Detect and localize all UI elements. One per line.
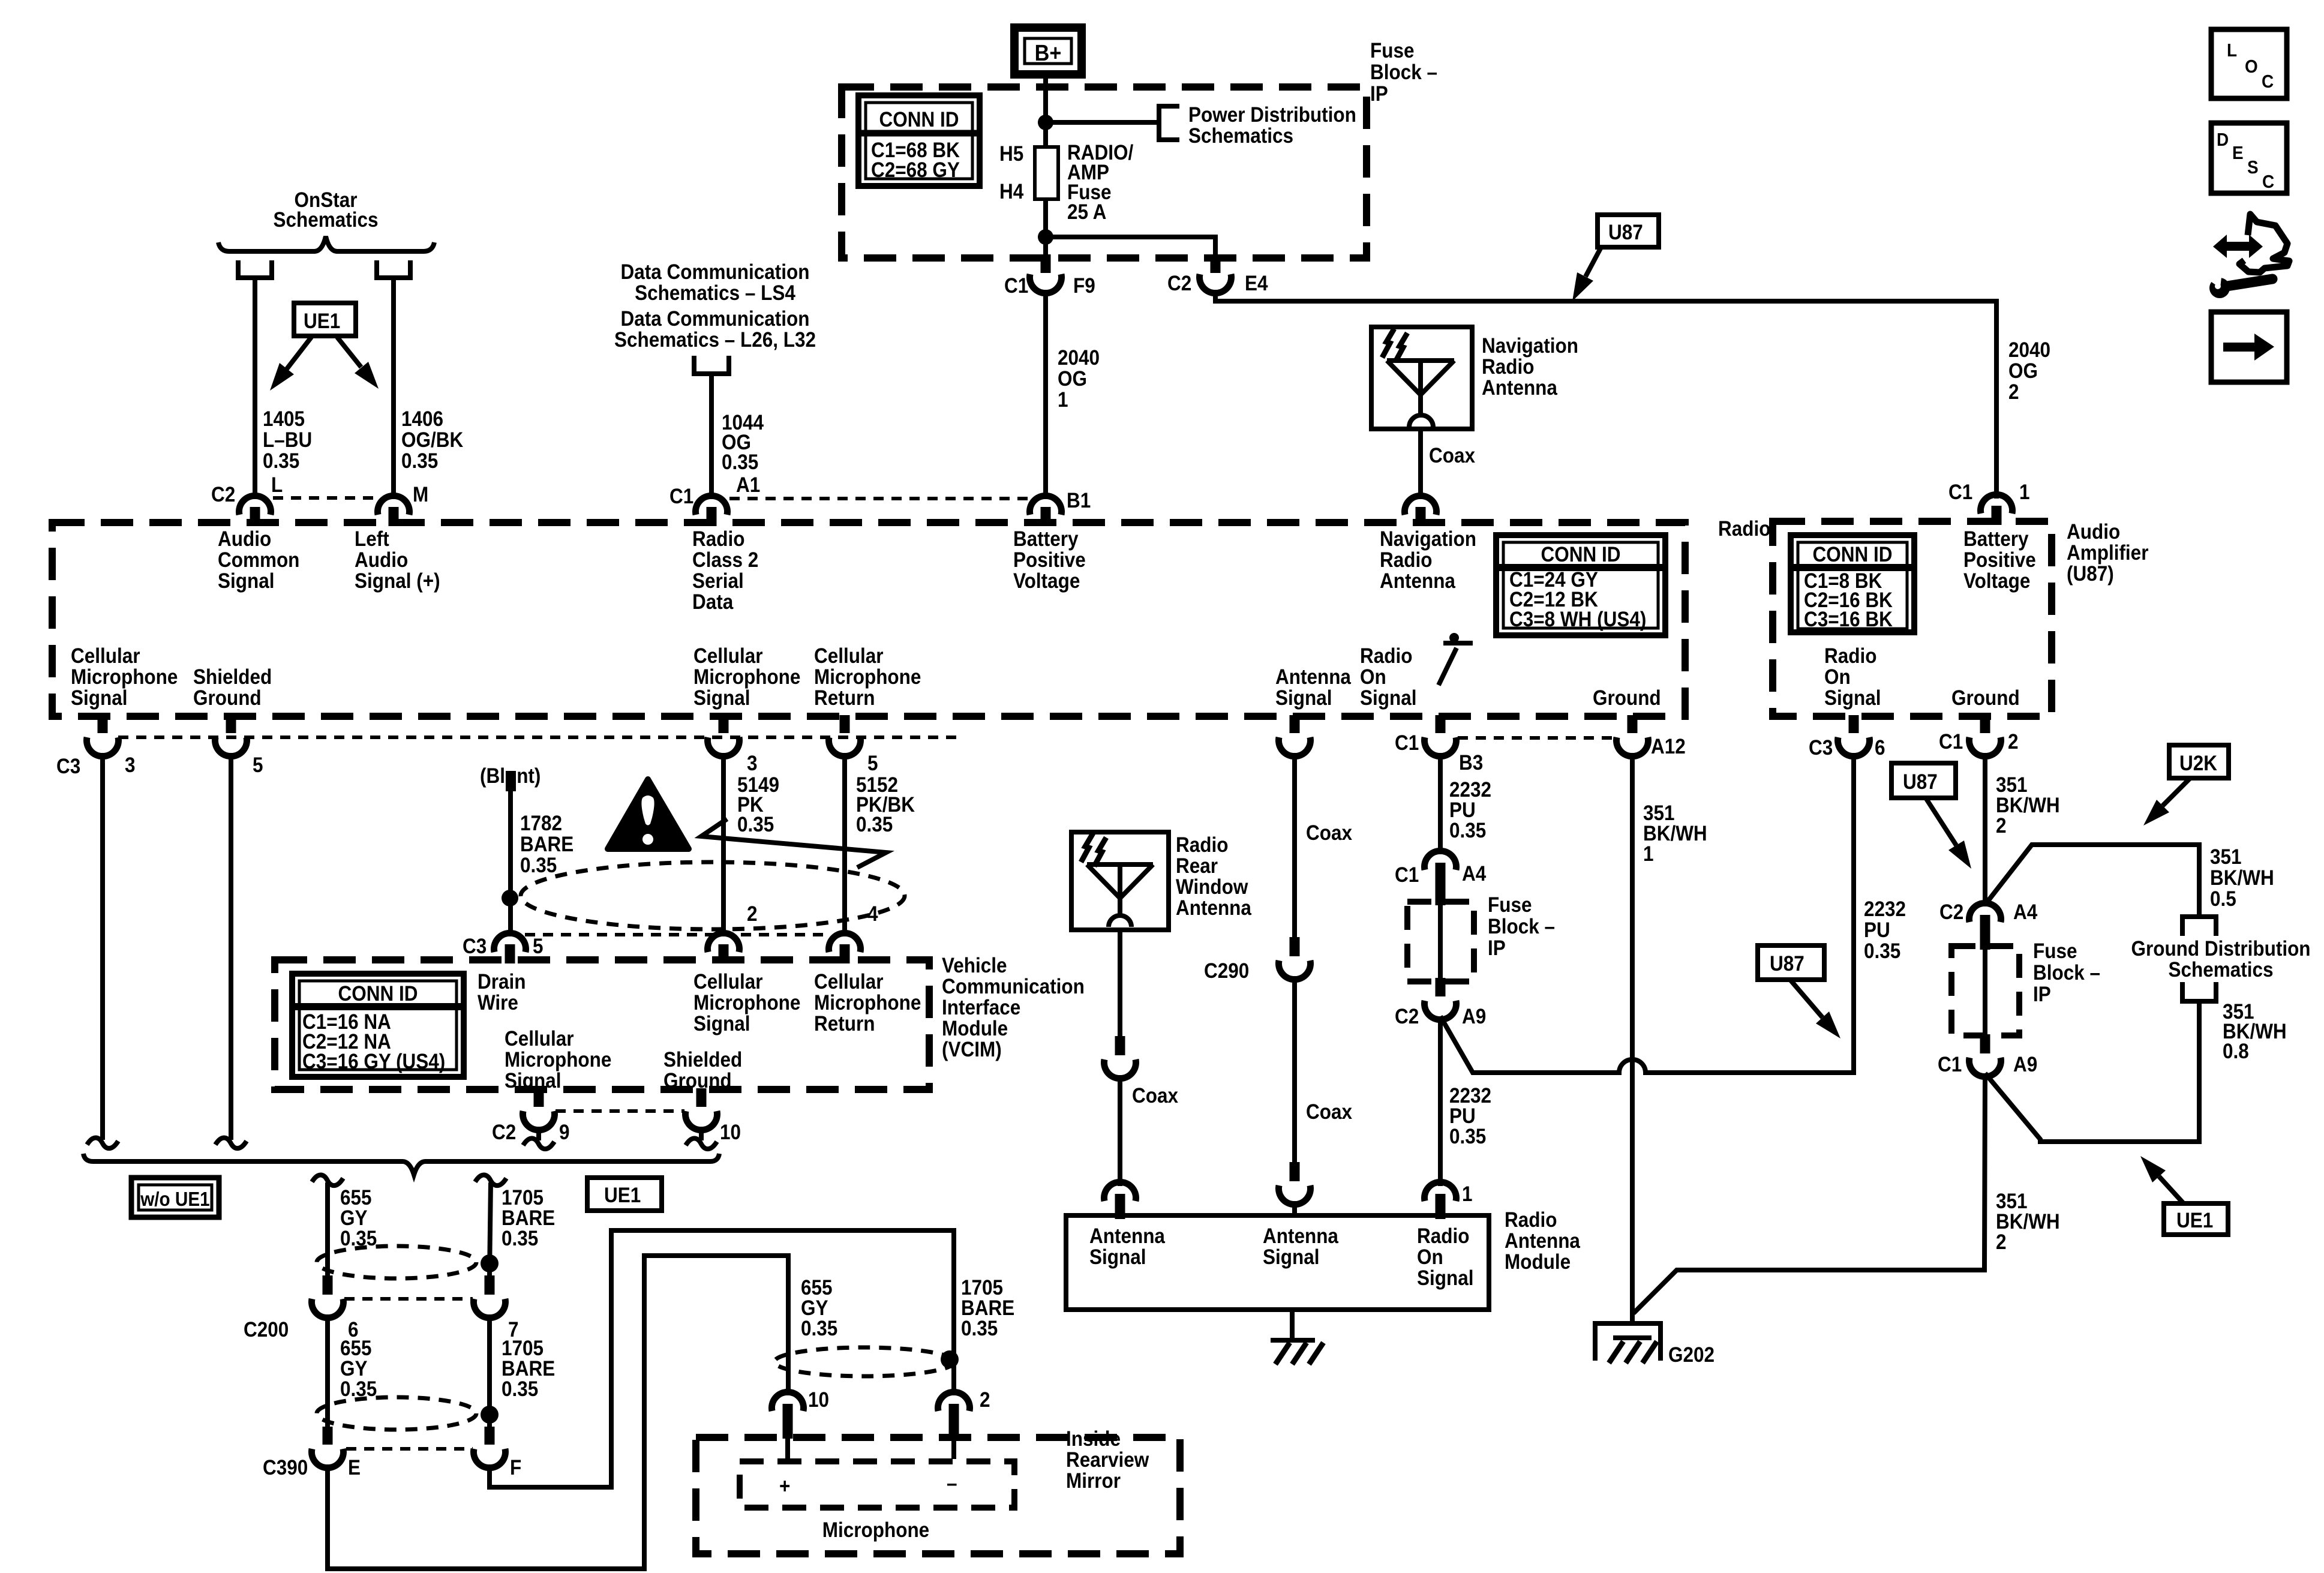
option label U87 arrow middle: [1891, 763, 1956, 798]
wire fuse to E4: [1046, 237, 1215, 257]
wire 5152 PK/BK: [842, 753, 847, 936]
antenna symbol rear window: [1087, 864, 1153, 917]
svg-text:O: O: [2245, 56, 2258, 77]
twisted pair dashed ellipse C200: [317, 1246, 476, 1278]
svg-text:0.35: 0.35: [520, 854, 557, 878]
svg-text:10: 10: [808, 1389, 829, 1412]
svg-text:Antenna: Antenna: [1089, 1225, 1165, 1248]
wire 1705 BARE upper: [475, 1175, 506, 1186]
svg-text:Voltage: Voltage: [1963, 570, 2030, 593]
svg-text:UE1: UE1: [2176, 1209, 2213, 1233]
connector face dashed line VCIM top: [525, 933, 831, 936]
connector C1 pin B3: [1436, 715, 1446, 733]
svg-text:Block –: Block –: [1488, 915, 1555, 939]
warning triangle: [608, 779, 689, 849]
svg-text:1: 1: [1643, 843, 1654, 866]
svg-text:Coax: Coax: [1306, 1101, 1352, 1124]
option label UE1 with arrows: [294, 303, 356, 336]
connector C1 pin 2 amplifier: [1980, 715, 1990, 733]
svg-text:C1: C1: [1939, 731, 1963, 754]
svg-text:Power Distribution: Power Distribution: [1188, 104, 1356, 127]
wire 1044 OG: [709, 374, 714, 499]
wire 351 BK/WH 0.5 to ground distribution: [1985, 845, 2199, 914]
fuse block IP dashed box: [842, 87, 1367, 258]
svg-text:Coax: Coax: [1306, 822, 1352, 845]
svg-text:Block –: Block –: [2033, 962, 2100, 985]
svg-text:Radio: Radio: [1505, 1209, 1557, 1232]
svg-text:C3=8 WH (US4): C3=8 WH (US4): [1509, 608, 1646, 632]
svg-text:M: M: [413, 484, 428, 507]
svg-text:0.35: 0.35: [1449, 819, 1486, 843]
svg-text:Radio: Radio: [1824, 645, 1876, 668]
svg-text:Module: Module: [942, 1017, 1008, 1041]
off-page bracket data communication: [692, 371, 731, 376]
svg-text:25 A: 25 A: [1067, 201, 1106, 224]
CONN ID table fuse block: [858, 95, 980, 186]
svg-text:OG: OG: [2008, 360, 2038, 383]
svg-text:3: 3: [125, 754, 136, 778]
connector C1 pin A9 amplifier fuse block: [1980, 1034, 1990, 1053]
connector face dashed line C390: [346, 1447, 473, 1451]
microphone dashed box: [740, 1461, 1014, 1508]
svg-text:Cellular: Cellular: [693, 971, 763, 994]
svg-text:Fuse: Fuse: [2033, 940, 2077, 963]
svg-text:6: 6: [1875, 737, 1885, 760]
svg-text:L: L: [271, 474, 283, 497]
navigation radio antenna box: [1371, 327, 1472, 429]
svg-text:–: –: [947, 1472, 957, 1496]
wire through fuse block: [1438, 905, 1443, 978]
svg-text:Radio: Radio: [1482, 356, 1534, 379]
svg-text:U87: U87: [1770, 953, 1804, 976]
svg-text:5: 5: [253, 754, 263, 778]
svg-text:3: 3: [747, 752, 758, 776]
connector pin 2 VCIM signal: [708, 933, 740, 952]
connector face dashed line A1 to B1: [729, 497, 1028, 500]
svg-text:Radio: Radio: [692, 528, 744, 551]
svg-text:Signal: Signal: [1824, 687, 1881, 710]
svg-text:2: 2: [747, 903, 758, 926]
svg-text:IP: IP: [1488, 937, 1506, 960]
splice junction mirror: [941, 1350, 959, 1368]
svg-text:Ground: Ground: [1951, 687, 2020, 710]
svg-text:Cellular: Cellular: [814, 971, 884, 994]
svg-text:0.35: 0.35: [502, 1378, 538, 1401]
svg-text:H5: H5: [999, 143, 1023, 166]
off-page bracket ground distribution bottom: [2180, 999, 2218, 1004]
connector C3 pin 6 amplifier: [1849, 715, 1859, 733]
svg-text:Radio: Radio: [1718, 518, 1770, 541]
connector face dashed line B3 to A12: [1458, 736, 1616, 740]
wire 2040 OG 1: [1043, 290, 1048, 499]
svg-text:Signal: Signal: [218, 570, 274, 593]
connector C2 pin A4 amplifier fuse block: [1969, 903, 2001, 922]
svg-text:C2: C2: [1395, 1005, 1419, 1029]
wire coax rear window: [1118, 930, 1122, 1036]
svg-text:BARE: BARE: [520, 833, 574, 857]
svg-text:C290: C290: [1204, 960, 1249, 983]
svg-text:Signal: Signal: [693, 1013, 750, 1036]
audio amplifier dashed box: [1773, 521, 2052, 716]
wire 1705 BARE lower: [487, 1314, 492, 1427]
svg-text:Interface: Interface: [942, 996, 1020, 1020]
svg-text:C2: C2: [1939, 901, 1963, 924]
connector C1 pin 1 amplifier: [1992, 506, 2002, 525]
svg-text:Block –: Block –: [1370, 61, 1437, 85]
connector C390 pin E: [323, 1427, 333, 1445]
svg-text:2: 2: [1996, 815, 2007, 838]
wire through right fuse block: [1983, 950, 1987, 1034]
svg-text:Signal: Signal: [71, 687, 127, 710]
svg-text:Radio: Radio: [1360, 645, 1412, 668]
svg-text:0.35: 0.35: [401, 450, 438, 473]
svg-text:A9: A9: [2013, 1053, 2037, 1077]
svg-text:Class 2: Class 2: [692, 549, 758, 572]
svg-text:E4: E4: [1245, 272, 1268, 296]
wire 1405 L-BU: [253, 278, 257, 499]
fuse block IP small dashed box: [1407, 902, 1474, 981]
svg-text:C2: C2: [1167, 272, 1191, 296]
CONN ID table radio: [1496, 535, 1665, 635]
svg-text:Microphone: Microphone: [505, 1049, 611, 1072]
svg-text:F9: F9: [1073, 275, 1095, 298]
svg-text:Schematics: Schematics: [273, 209, 378, 232]
connector face dashed line L to M: [273, 496, 377, 500]
svg-text:Drain: Drain: [478, 971, 526, 994]
svg-text:10: 10: [720, 1121, 741, 1145]
connector pin 5 cellular microphone return: [840, 715, 850, 733]
svg-text:5: 5: [533, 935, 544, 959]
svg-text:B1: B1: [1067, 490, 1091, 513]
svg-text:Ground Distribution: Ground Distribution: [2131, 938, 2310, 961]
svg-text:C: C: [2262, 172, 2274, 193]
svg-text:BK/WH: BK/WH: [2210, 867, 2274, 890]
svg-text:B3: B3: [1459, 752, 1483, 775]
svg-text:L: L: [2227, 40, 2237, 61]
svg-text:C2: C2: [211, 484, 235, 507]
svg-text:Fuse: Fuse: [1488, 894, 1532, 917]
svg-text:C1: C1: [1395, 864, 1419, 887]
svg-text:Radio: Radio: [1417, 1225, 1469, 1248]
svg-text:+: +: [779, 1475, 790, 1499]
svg-text:Wire: Wire: [478, 992, 518, 1015]
svg-text:F: F: [510, 1457, 521, 1480]
svg-text:4: 4: [867, 903, 878, 926]
svg-text:PU: PU: [1864, 919, 1890, 942]
connector C1 pin A4 fuse block: [1425, 851, 1457, 870]
ground symbol antenna module: [1271, 1338, 1315, 1343]
option label U2K with arrow: [2169, 745, 2229, 778]
svg-text:2040: 2040: [2008, 339, 2050, 362]
svg-text:U87: U87: [1608, 221, 1643, 245]
connector pin 5 shielded ground: [226, 715, 236, 733]
connector pin 10 mirror: [772, 1392, 804, 1411]
svg-text:0.35: 0.35: [961, 1317, 998, 1341]
svg-text:Mirror: Mirror: [1066, 1470, 1121, 1493]
connector C390 pin F: [485, 1427, 495, 1445]
VCIM dashed box: [275, 960, 929, 1089]
svg-text:C1: C1: [1938, 1053, 1962, 1077]
svg-text:5: 5: [867, 752, 878, 776]
svg-text:CONN ID: CONN ID: [1813, 544, 1893, 567]
svg-text:351: 351: [2210, 846, 2242, 869]
svg-text:IP: IP: [2033, 983, 2051, 1007]
svg-text:Cellular: Cellular: [505, 1028, 574, 1051]
svg-text:Microphone: Microphone: [814, 992, 921, 1015]
connector antenna signal radio: [1290, 715, 1300, 733]
wire to power distribution: [1046, 120, 1158, 125]
off-page bracket ground distribution top: [2180, 914, 2218, 919]
svg-text:A1: A1: [736, 474, 760, 497]
connector nav antenna to radio: [1416, 507, 1426, 526]
svg-text:2: 2: [2008, 381, 2019, 404]
svg-text:On: On: [1417, 1246, 1443, 1269]
svg-text:Antenna: Antenna: [1275, 666, 1351, 689]
svg-text:Antenna: Antenna: [1505, 1230, 1580, 1253]
wire 351 BK/WH 2 amplifier ground: [1983, 753, 1987, 906]
svg-text:1: 1: [1462, 1183, 1473, 1206]
wire cellular microphone signal left: [100, 753, 105, 1140]
svg-text:0.35: 0.35: [856, 813, 893, 837]
svg-text:9: 9: [559, 1121, 570, 1145]
svg-text:1406: 1406: [401, 408, 443, 431]
connector pin 4 VCIM return: [829, 933, 861, 952]
connector B1: [1041, 507, 1051, 526]
splice junction 1705 upper: [481, 1254, 499, 1272]
svg-text:Vehicle: Vehicle: [942, 954, 1007, 978]
icon DESC: [2211, 123, 2287, 193]
svg-text:Data Communication: Data Communication: [621, 261, 810, 284]
svg-text:Signal: Signal: [505, 1070, 561, 1093]
connector C1 pin F9: [1041, 254, 1051, 273]
svg-text:C1: C1: [1948, 481, 1972, 505]
wire coax antenna signal: [1292, 753, 1297, 937]
svg-text:C3: C3: [1809, 737, 1833, 760]
svg-text:IP: IP: [1370, 83, 1388, 106]
radio rear window antenna box: [1071, 832, 1169, 930]
CONN ID table amplifier: [1791, 535, 1914, 632]
connector C2 pin A9 fuse block: [1436, 978, 1446, 996]
svg-text:CONN ID: CONN ID: [879, 109, 959, 132]
option label UE1 harness: [587, 1178, 662, 1211]
svg-text:C3=16 BK: C3=16 BK: [1804, 608, 1893, 632]
svg-text:C3: C3: [463, 935, 487, 959]
svg-text:U87: U87: [1903, 771, 1938, 794]
CONN ID table VCIM: [292, 974, 464, 1077]
option label U87 arrow to radio on wire: [1758, 945, 1824, 980]
svg-text:Fuse: Fuse: [1370, 40, 1414, 63]
svg-text:E: E: [2232, 143, 2244, 164]
svg-text:Microphone: Microphone: [693, 666, 800, 689]
svg-text:Shielded: Shielded: [663, 1049, 742, 1072]
svg-text:0.35: 0.35: [1864, 940, 1900, 963]
svg-text:UE1: UE1: [604, 1184, 641, 1208]
svg-text:Microphone: Microphone: [822, 1519, 929, 1542]
connector pin M: [389, 507, 399, 526]
connector pin A12 ground: [1628, 715, 1638, 733]
svg-text:Navigation: Navigation: [1482, 335, 1578, 358]
svg-text:1: 1: [2019, 481, 2030, 505]
svg-text:C3: C3: [56, 755, 80, 779]
fuse RADIO/AMP 25A: [1035, 147, 1058, 199]
wire coax nav antenna: [1418, 429, 1423, 499]
wire 655 GY upper: [312, 1175, 343, 1186]
svg-text:C1: C1: [1395, 732, 1419, 755]
svg-text:Voltage: Voltage: [1013, 570, 1080, 593]
connector C290: [1290, 937, 1300, 956]
svg-text:Microphone: Microphone: [814, 666, 921, 689]
option label w/o UE1: [131, 1178, 219, 1217]
wire 351 BK/WH 0.8 to ground distribution: [1985, 1001, 2199, 1142]
bracket power distribution schematics: [1159, 106, 1179, 140]
connector pin 1 antenna module: [1425, 1182, 1457, 1201]
svg-text:Serial: Serial: [692, 570, 744, 593]
svg-text:C2: C2: [492, 1121, 516, 1145]
svg-text:Schematics – LS4: Schematics – LS4: [635, 282, 795, 305]
wire 2232 PU drop to module pin 1: [1438, 1016, 1443, 1186]
connector pin 10 VCIM: [696, 1088, 707, 1107]
svg-text:Antenna: Antenna: [1482, 377, 1557, 400]
radio dashed box: [52, 523, 1685, 716]
svg-text:1405: 1405: [263, 408, 305, 431]
radio antenna module box: [1066, 1215, 1489, 1310]
svg-text:On: On: [1360, 666, 1386, 689]
svg-text:C2=68 GY: C2=68 GY: [871, 159, 960, 182]
svg-text:D: D: [2217, 130, 2229, 151]
svg-text:1782: 1782: [520, 812, 562, 836]
svg-text:Radio: Radio: [1176, 834, 1228, 857]
svg-text:Audio: Audio: [355, 549, 408, 572]
svg-text:(VCIM): (VCIM): [942, 1038, 1002, 1062]
inline coax connector rear window: [1115, 1036, 1125, 1055]
ground lead antenna module: [1290, 1310, 1295, 1340]
icon service vehicle wrench: [2239, 214, 2289, 272]
svg-text:U2K: U2K: [2179, 752, 2217, 776]
svg-text:A4: A4: [1462, 863, 1487, 886]
interference marks: [1382, 329, 1394, 358]
svg-text:Cellular: Cellular: [814, 645, 884, 668]
svg-text:Navigation: Navigation: [1380, 528, 1476, 551]
svg-text:Schematics: Schematics: [1188, 125, 1293, 148]
wire shielded ground left: [229, 753, 233, 1140]
svg-text:Inside: Inside: [1066, 1428, 1121, 1451]
connector antenna module left: [1104, 1182, 1136, 1201]
wire 351 BK/WH 2 to G202: [1634, 1073, 1985, 1313]
off-page bracket OnStar right: [374, 275, 413, 280]
svg-text:Left: Left: [355, 528, 389, 551]
twisted pair dashed ellipse C390: [317, 1397, 476, 1430]
off-page bracket OnStar left: [236, 275, 274, 280]
svg-text:Signal: Signal: [1275, 687, 1332, 710]
svg-text:2232: 2232: [1864, 898, 1906, 921]
svg-text:Amplifier: Amplifier: [2067, 542, 2149, 565]
twisted pair dashed ellipse mirror: [774, 1347, 954, 1376]
svg-text:C200: C200: [244, 1319, 289, 1342]
wire coax C290 to module: [1292, 976, 1297, 1164]
svg-text:Signal: Signal: [1360, 687, 1416, 710]
svg-text:Microphone: Microphone: [693, 992, 800, 1015]
svg-text:Antenna: Antenna: [1380, 570, 1455, 593]
svg-text:Positive: Positive: [1963, 549, 2036, 572]
svg-text:H4: H4: [999, 181, 1024, 204]
connector face dashed line C2 9 to 10: [556, 1109, 684, 1113]
svg-text:OG: OG: [1058, 368, 1087, 391]
svg-text:0.5: 0.5: [2210, 888, 2236, 911]
option label UE1 with arrow bottom right: [2164, 1203, 2228, 1235]
svg-text:C: C: [2262, 71, 2274, 92]
svg-text:CONN ID: CONN ID: [338, 983, 418, 1006]
svg-text:Antenna: Antenna: [1176, 897, 1251, 920]
svg-text:L–BU: L–BU: [263, 429, 312, 452]
wire 655 GY lower: [325, 1314, 330, 1427]
svg-text:0.35: 0.35: [722, 451, 758, 475]
svg-text:2040: 2040: [1058, 347, 1100, 370]
connector C1 pin A1: [707, 507, 717, 526]
junction: [1038, 229, 1053, 245]
svg-text:w/o UE1: w/o UE1: [140, 1188, 209, 1211]
option label U87 with arrow: [1598, 215, 1659, 247]
junction: [1038, 115, 1053, 130]
wire 2040 OG 2 run to audio amplifier: [1215, 290, 1996, 499]
splice junction on drain wire: [502, 890, 518, 906]
connector C2 pin 9: [534, 1088, 544, 1107]
svg-text:Audio: Audio: [2067, 521, 2120, 544]
svg-text:Audio: Audio: [218, 528, 271, 551]
connector face dashed line radio bottom: [118, 736, 957, 739]
svg-text:Rearview: Rearview: [1066, 1449, 1149, 1472]
svg-text:Shielded: Shielded: [193, 666, 272, 689]
svg-text:Signal: Signal: [1089, 1246, 1146, 1269]
svg-text:Return: Return: [814, 1013, 875, 1036]
wire 655 GY to mirror microphone plus: [328, 1256, 788, 1569]
svg-text:Data Communication: Data Communication: [621, 308, 810, 331]
svg-text:A9: A9: [1462, 1005, 1486, 1029]
svg-text:Battery: Battery: [1013, 528, 1079, 551]
connector C2 pin L: [250, 507, 260, 526]
icon forward arrow: [2211, 312, 2287, 382]
icon LOC: [2211, 29, 2287, 98]
svg-text:2: 2: [980, 1389, 990, 1412]
radio on switch symbol: [1439, 648, 1457, 685]
svg-text:Common: Common: [218, 549, 299, 572]
svg-text:Coax: Coax: [1132, 1085, 1178, 1108]
svg-text:On: On: [1824, 666, 1851, 689]
svg-text:0.35: 0.35: [502, 1227, 538, 1251]
svg-text:Rear: Rear: [1176, 855, 1218, 878]
svg-text:2: 2: [2008, 731, 2019, 754]
svg-text:Ground: Ground: [193, 687, 262, 710]
svg-text:C1: C1: [1004, 275, 1028, 298]
svg-text:1: 1: [1058, 389, 1068, 412]
wire 1406 OG/BK: [391, 278, 396, 499]
svg-text:0.8: 0.8: [2223, 1040, 2249, 1064]
ground symbol G202: [1595, 1323, 1661, 1361]
svg-text:C390: C390: [263, 1457, 308, 1480]
connector C200 pin 7: [485, 1275, 495, 1295]
svg-text:Signal: Signal: [693, 687, 750, 710]
wire 1705 BARE to mirror microphone minus: [490, 1230, 954, 1487]
svg-text:Signal: Signal: [1417, 1267, 1473, 1290]
connector C2 pin E4: [1211, 254, 1221, 273]
svg-text:Ground: Ground: [1593, 687, 1661, 710]
connector pin 3 cellular microphone signal: [719, 715, 729, 733]
svg-text:A12: A12: [1651, 736, 1686, 759]
svg-text:Window: Window: [1176, 876, 1248, 899]
svg-text:Module: Module: [1505, 1251, 1571, 1274]
svg-text:Schematics: Schematics: [2168, 959, 2273, 982]
svg-text:2: 2: [1996, 1231, 2007, 1254]
interference marks rear window: [1081, 833, 1093, 862]
